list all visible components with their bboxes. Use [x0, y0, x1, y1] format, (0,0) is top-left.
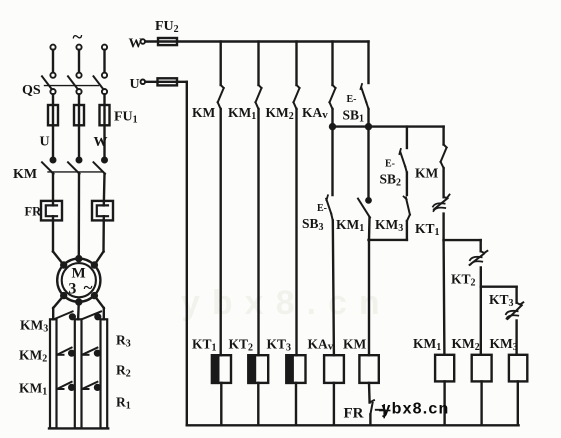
svg-text:~: ~ — [73, 27, 83, 48]
svg-text:FR: FR — [344, 406, 364, 422]
svg-text:W: W — [94, 135, 108, 150]
svg-text:KM: KM — [343, 337, 367, 352]
svg-text:3: 3 — [68, 281, 76, 298]
svg-text:FR: FR — [25, 205, 43, 219]
svg-text:W: W — [129, 37, 143, 52]
svg-text:ybx8.cn: ybx8.cn — [181, 284, 392, 322]
svg-text:U: U — [130, 77, 140, 92]
svg-text:KM: KM — [415, 166, 439, 181]
svg-text:E-: E- — [317, 203, 327, 214]
svg-text:E-: E- — [347, 94, 357, 105]
svg-text:U: U — [40, 135, 50, 150]
svg-text:E-: E- — [385, 159, 395, 170]
svg-text:KM: KM — [13, 167, 37, 182]
svg-text:~: ~ — [84, 278, 93, 297]
svg-text:QS: QS — [22, 83, 41, 98]
svg-text:KM: KM — [192, 105, 216, 120]
svg-text:ybx8.cn: ybx8.cn — [382, 401, 450, 418]
